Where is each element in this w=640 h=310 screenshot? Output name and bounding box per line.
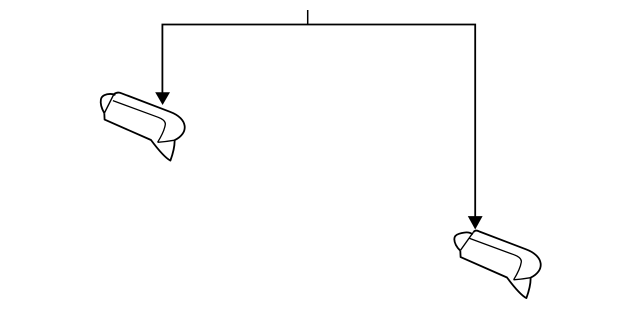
clip 2: left ear flap bbox=[454, 232, 473, 250]
clip 2: lower face line bbox=[514, 278, 531, 280]
clip 2: fold crease line bbox=[460, 232, 473, 250]
wire: center tick on horizontal run bbox=[307, 10, 309, 25]
clip 2 (right visor clip): body outline with hook fin bbox=[454, 231, 540, 299]
wire: bracket connector (left drop, horizontal run, right drop) bbox=[162, 25, 475, 217]
clip 2: inner recess line bbox=[469, 238, 521, 280]
clip 1: left ear flap bbox=[101, 94, 116, 113]
arrowhead: left leader arrow bbox=[155, 92, 170, 105]
clip 1 (left visor clip): body outline with hook fin bbox=[104, 93, 184, 161]
clip 1: lower face line bbox=[158, 140, 175, 142]
clip 1: fold crease line bbox=[104, 94, 114, 113]
clip 1: inner recess line bbox=[113, 101, 165, 143]
arrowhead: right leader arrow bbox=[468, 216, 483, 229]
